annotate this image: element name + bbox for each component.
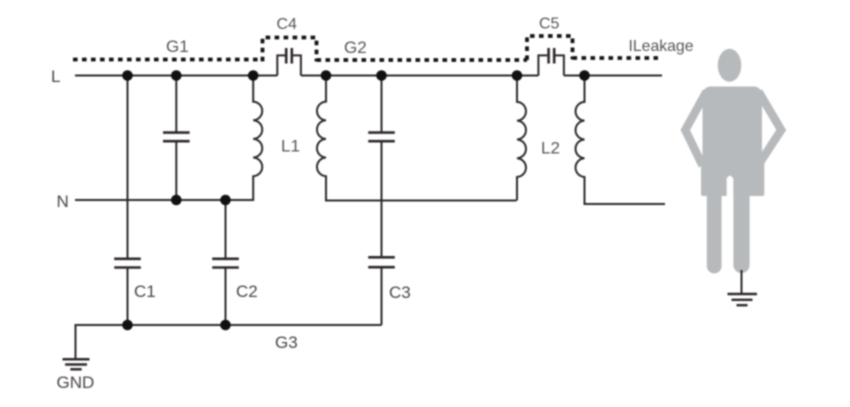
- capacitor C4: [277, 16, 301, 76]
- inductor L1 left winding: [231, 76, 263, 201]
- ground GND symbol: [63, 359, 90, 369]
- wire N rail: [75, 199, 253, 201]
- person silhouette: [685, 49, 781, 274]
- svg-text:C5: C5: [539, 16, 560, 33]
- wire G3 bus: [76, 325, 382, 359]
- svg-text:G2: G2: [344, 38, 367, 57]
- svg-text:G1: G1: [166, 37, 189, 56]
- svg-text:L: L: [51, 67, 60, 86]
- junction dots on G3 bus: [122, 320, 231, 331]
- svg-text:C1: C1: [134, 282, 156, 301]
- inductor L2 right winding: [576, 76, 665, 205]
- capacitor X2 (unlabeled, after L1): [368, 133, 395, 142]
- inductor L2 left winding: [517, 76, 526, 201]
- wire L rail: [75, 75, 662, 77]
- svg-text:C2: C2: [236, 282, 258, 301]
- wire branch C1 (L rail to G3 bus): [127, 76, 129, 326]
- svg-text:ILeakage: ILeakage: [629, 38, 694, 55]
- svg-text:L2: L2: [541, 139, 560, 158]
- leakage dashed path ILeakage: [73, 36, 658, 61]
- wire person to ground: [741, 270, 743, 294]
- capacitor C3: [368, 257, 411, 302]
- capacitor C1: [114, 259, 156, 301]
- svg-text:C4: C4: [277, 16, 298, 33]
- svg-text:L1: L1: [281, 137, 300, 156]
- capacitor X1 (unlabeled, between L and N): [163, 133, 190, 142]
- svg-text:G3: G3: [275, 333, 298, 352]
- wire branch C3 (L rail through X-cap to G3): [381, 76, 383, 326]
- capacitor C5: [538, 16, 564, 76]
- inductor L1 right winding: [317, 76, 517, 201]
- junction dots on N rail: [171, 195, 231, 206]
- svg-text:C3: C3: [389, 283, 411, 302]
- wire branch C2 (N to G3 bus): [225, 200, 227, 325]
- junction dots on L rail: [122, 70, 590, 81]
- svg-text:GND: GND: [57, 373, 95, 392]
- wire branch X-cap G1 (L to N): [175, 76, 177, 201]
- svg-text:N: N: [57, 192, 69, 211]
- capacitor C2: [212, 259, 258, 301]
- ground symbol under person: [728, 294, 758, 305]
